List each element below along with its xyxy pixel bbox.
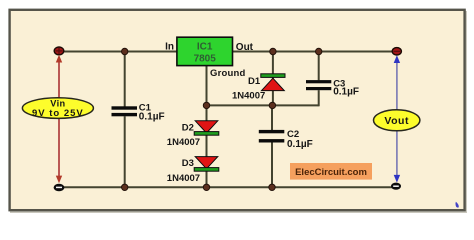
pin label Out bbox=[236, 42, 254, 53]
svg-text:7805: 7805 bbox=[194, 54, 217, 65]
junction dot bottom rail / C2 bbox=[269, 184, 275, 190]
wire IC ground branch vertical (through D2, D3) bbox=[206, 66, 208, 188]
junction dot bottom rail / C1 bbox=[122, 184, 128, 190]
terminal + input (top left) bbox=[54, 47, 64, 55]
svg-text:1N4007: 1N4007 bbox=[167, 137, 200, 148]
diode D3 (triangle pointing down, cathode bar below) bbox=[167, 157, 219, 184]
svg-text:ElecCircuit.com: ElecCircuit.com bbox=[295, 167, 367, 178]
terminal + output (top right) bbox=[392, 48, 401, 55]
cursor mark bottom right bbox=[455, 202, 458, 208]
wire ground horizontal run bbox=[207, 104, 319, 106]
svg-text:IC1: IC1 bbox=[197, 42, 213, 53]
pin label In bbox=[165, 41, 174, 52]
svg-text:In: In bbox=[165, 41, 174, 52]
wire C1 branch vertical bbox=[124, 52, 126, 188]
terminal - input (bottom left) bbox=[54, 184, 65, 192]
Vin arrow up bbox=[56, 55, 62, 99]
wire D1 branch vertical bbox=[272, 52, 274, 106]
pin label Ground bbox=[210, 68, 246, 79]
wire C3 branch vertical bbox=[318, 52, 320, 107]
Vin arrow down bbox=[56, 118, 62, 184]
svg-text:Vout: Vout bbox=[384, 115, 409, 127]
svg-text:D1: D1 bbox=[248, 76, 261, 87]
junction dot bottom rail / D3 bbox=[203, 184, 209, 190]
junction dot D1 / C2 node bbox=[269, 102, 275, 108]
junction dot ground pin / ground run bbox=[203, 102, 209, 108]
svg-text:Ground: Ground bbox=[210, 68, 246, 79]
terminal - output (bottom right) bbox=[391, 183, 401, 190]
Vout arrow down bbox=[394, 131, 400, 183]
svg-text:D3: D3 bbox=[182, 158, 194, 169]
svg-text:1N4007: 1N4007 bbox=[232, 91, 265, 102]
junction dot top rail / C1 bbox=[122, 48, 128, 54]
junction dot top rail / D1 bbox=[270, 48, 276, 54]
svg-text:0.1µF: 0.1µF bbox=[287, 139, 313, 150]
node Vout label oval bbox=[374, 110, 420, 131]
node Vin label oval bbox=[22, 98, 93, 119]
svg-text:9V to 25V: 9V to 25V bbox=[32, 108, 84, 119]
svg-text:D2: D2 bbox=[182, 123, 194, 134]
diode D1 (cathode bar up, anode triangle pointing up) bbox=[232, 74, 285, 102]
svg-text:Vin: Vin bbox=[50, 98, 65, 108]
capacitor C2 bbox=[259, 129, 313, 150]
diode D2 (triangle pointing down, cathode bar below) bbox=[167, 121, 219, 148]
wire bottom rail bbox=[59, 186, 396, 188]
wire top rail left: +Vin terminal to IC In pin bbox=[59, 51, 177, 53]
op-amp / regulator U: IC1 7805 body bbox=[177, 37, 233, 65]
svg-text:0.1µF: 0.1µF bbox=[333, 87, 359, 98]
capacitor C3 bbox=[306, 78, 359, 97]
ElecCircuit.com watermark bbox=[290, 163, 372, 180]
wire top rail right: IC Out pin to +Vout terminal bbox=[233, 51, 398, 53]
svg-text:0.1µF: 0.1µF bbox=[139, 111, 165, 122]
capacitor C1 bbox=[112, 102, 165, 122]
Vout arrow up bbox=[394, 55, 400, 110]
svg-text:1N4007: 1N4007 bbox=[167, 173, 200, 184]
wire C2 branch vertical bbox=[271, 105, 273, 187]
svg-text:Out: Out bbox=[236, 42, 254, 53]
junction dot top rail / C3 bbox=[316, 48, 322, 54]
